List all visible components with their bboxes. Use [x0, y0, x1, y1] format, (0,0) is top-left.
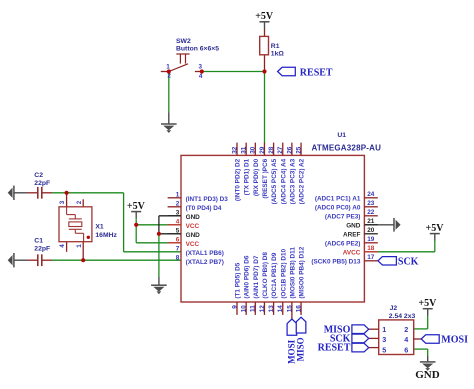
svg-text:1kΩ: 1kΩ [271, 51, 285, 58]
svg-text:15: 15 [286, 305, 293, 313]
svg-text:U1: U1 [337, 132, 346, 139]
svg-text:(ADC4 PC4) A4: (ADC4 PC4) A4 [280, 158, 287, 204]
svg-text:4: 4 [176, 218, 180, 225]
svg-text:10: 10 [241, 305, 248, 313]
svg-text:19: 19 [367, 236, 375, 243]
svg-text:1: 1 [76, 244, 83, 248]
svg-text:(OC1A PB1) D9: (OC1A PB1) D9 [271, 252, 278, 298]
svg-text:(ADC6 PE2): (ADC6 PE2) [325, 240, 361, 247]
svg-text:4: 4 [59, 244, 66, 248]
svg-text:(SCK0 PB5) D13: (SCK0 PB5) D13 [311, 258, 360, 265]
svg-text:R1: R1 [271, 43, 280, 50]
svg-text:GND: GND [186, 232, 201, 239]
svg-text:MOSI: MOSI [441, 335, 468, 346]
svg-text:3: 3 [382, 335, 386, 344]
svg-text:(RESET )PC6: (RESET )PC6 [262, 158, 269, 198]
svg-text:(ADC1 PC1) A1: (ADC1 PC1) A1 [315, 195, 361, 202]
svg-text:32: 32 [231, 146, 238, 154]
svg-text:AVCC: AVCC [343, 249, 361, 256]
svg-text:24: 24 [367, 191, 375, 198]
svg-text:2: 2 [167, 73, 171, 80]
svg-text:1: 1 [176, 191, 180, 198]
svg-text:(MOSI0 PB3) D11: (MOSI0 PB3) D11 [289, 247, 296, 299]
svg-text:4: 4 [199, 73, 203, 80]
svg-text:23: 23 [367, 200, 375, 207]
svg-text:X1: X1 [95, 223, 104, 230]
svg-text:(RX PD0) D0: (RX PD0) D0 [253, 158, 260, 196]
svg-text:AREF: AREF [343, 231, 360, 238]
svg-text:(CLKO PB0) D8: (CLKO PB0) D8 [262, 252, 269, 299]
svg-text:2: 2 [176, 200, 180, 207]
svg-text:(MISO0 PB4) D12: (MISO0 PB4) D12 [299, 246, 306, 298]
svg-text:SCK: SCK [398, 256, 419, 267]
svg-text:(AIN1 PD7) D7: (AIN1 PD7) D7 [253, 255, 260, 298]
svg-text:J2: J2 [390, 305, 398, 312]
svg-text:(ADC0 PC0) A0: (ADC0 PC0) A0 [315, 204, 361, 211]
svg-text:3: 3 [176, 209, 180, 216]
svg-text:26: 26 [286, 146, 293, 154]
svg-text:(ADC2 PC2) A2: (ADC2 PC2) A2 [299, 158, 306, 204]
svg-text:13: 13 [268, 305, 275, 313]
svg-text:21: 21 [367, 218, 375, 225]
svg-text:C2: C2 [34, 172, 43, 179]
svg-text:C1: C1 [34, 238, 43, 245]
svg-text:(T0 PD4) D4: (T0 PD4) D4 [186, 205, 222, 212]
svg-text:16: 16 [295, 305, 302, 313]
svg-text:18: 18 [367, 245, 375, 252]
svg-text:RESET: RESET [300, 67, 333, 78]
svg-text:GND: GND [346, 222, 361, 229]
svg-text:22pF: 22pF [34, 180, 50, 187]
svg-text:(INT0 PD2) D2: (INT0 PD2) D2 [235, 158, 242, 201]
svg-text:RESET: RESET [318, 343, 351, 354]
svg-text:(INT1 PD3) D3: (INT1 PD3) D3 [186, 196, 229, 203]
svg-text:14: 14 [277, 305, 284, 313]
svg-text:(AIN0 PD6) D6: (AIN0 PD6) D6 [244, 255, 251, 298]
svg-text:5: 5 [176, 227, 180, 234]
svg-text:2: 2 [404, 325, 408, 334]
svg-text:22pF: 22pF [34, 246, 50, 253]
svg-text:2.54 2x3: 2.54 2x3 [389, 313, 416, 320]
svg-text:(ADC7 PE3): (ADC7 PE3) [325, 213, 361, 220]
svg-text:6: 6 [176, 236, 180, 243]
svg-text:VCC: VCC [186, 223, 200, 230]
svg-text:11: 11 [250, 305, 257, 312]
svg-text:30: 30 [250, 146, 257, 154]
svg-text:(ADC5 PC5) A5: (ADC5 PC5) A5 [271, 158, 278, 204]
svg-text:1: 1 [166, 64, 170, 71]
svg-text:Button 6×6×5: Button 6×6×5 [176, 46, 219, 53]
svg-text:9: 9 [231, 305, 238, 309]
svg-text:8: 8 [176, 254, 180, 261]
svg-text:6: 6 [404, 345, 408, 354]
svg-text:+5V: +5V [426, 223, 445, 234]
svg-text:20: 20 [367, 227, 375, 234]
svg-text:2: 2 [76, 200, 83, 204]
svg-text:(TX PD1) D1: (TX PD1) D1 [244, 158, 251, 195]
svg-text:22: 22 [367, 209, 375, 216]
svg-text:29: 29 [259, 146, 266, 154]
svg-text:28: 28 [268, 146, 275, 154]
svg-text:(XTAL1 PB6): (XTAL1 PB6) [186, 250, 224, 257]
svg-text:(ADC3 PC3) A3: (ADC3 PC3) A3 [289, 158, 296, 204]
svg-text:+5V: +5V [127, 201, 146, 212]
svg-text:7: 7 [176, 245, 180, 252]
svg-text:5: 5 [382, 345, 386, 354]
svg-text:12: 12 [259, 305, 266, 313]
svg-text:(T1 PD5) D5: (T1 PD5) D5 [235, 262, 242, 298]
svg-text:31: 31 [241, 146, 248, 154]
svg-text:(XTAL2 PB7): (XTAL2 PB7) [186, 259, 224, 266]
svg-text:SW2: SW2 [176, 38, 191, 45]
svg-text:4: 4 [404, 335, 408, 344]
svg-text:1: 1 [382, 325, 386, 334]
svg-text:+5V: +5V [418, 298, 437, 309]
svg-text:16MHz: 16MHz [95, 232, 117, 239]
svg-text:3: 3 [59, 200, 66, 204]
svg-text:27: 27 [277, 146, 284, 154]
svg-text:GND: GND [186, 214, 201, 221]
svg-text:17: 17 [367, 254, 375, 261]
svg-text:VCC: VCC [186, 241, 200, 248]
svg-text:(OC1B PB2) D10: (OC1B PB2) D10 [280, 248, 287, 298]
svg-text:+5V: +5V [255, 11, 274, 22]
svg-text:25: 25 [295, 146, 302, 154]
svg-text:MISO: MISO [296, 337, 306, 361]
svg-text:ATMEGA328P-AU: ATMEGA328P-AU [312, 144, 382, 153]
svg-text:GND: GND [415, 369, 440, 381]
